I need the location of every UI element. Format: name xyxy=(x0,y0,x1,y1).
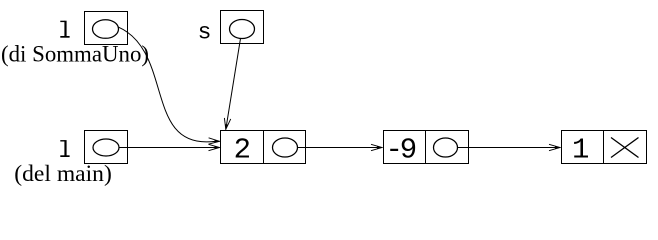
node 2 box xyxy=(221,131,306,164)
wire: arrow from node -9 pointer to node 1 xyxy=(458,147,561,149)
wire: arrow from l (del main) blob to node 2 xyxy=(120,147,220,149)
pointer blob in box l (di SommaUno) xyxy=(93,20,119,39)
pointer blob in box l (del main) xyxy=(93,139,119,156)
svg-text:(di SommaUno): (di SommaUno) xyxy=(1,42,149,67)
pointer variable box s xyxy=(221,11,264,44)
node 1 null cross xyxy=(611,138,639,158)
svg-text:9: 9 xyxy=(400,134,417,167)
node -9 box xyxy=(384,131,469,164)
node 1 box xyxy=(562,131,647,164)
pointer variable box l (di SommaUno) xyxy=(85,12,128,45)
label l (del main) xyxy=(60,140,69,157)
wire: arrow from s blob down to node 2 xyxy=(226,39,241,130)
svg-text:s: s xyxy=(198,20,212,46)
node 2 divider xyxy=(263,131,265,164)
node -9 divider xyxy=(425,131,427,164)
svg-text:2: 2 xyxy=(234,134,251,167)
node 1 divider xyxy=(603,131,605,164)
svg-text:1: 1 xyxy=(572,134,589,167)
node 2 pointer blob xyxy=(273,138,298,157)
svg-text:(del main): (del main) xyxy=(14,161,112,186)
pointer variable box l (del main) xyxy=(85,131,128,164)
wire: arrow from node 2 pointer to node -9 xyxy=(298,147,383,149)
pointer blob in box s xyxy=(230,20,255,39)
wire: curved arrow from l (di SommaUno) blob to node 2 xyxy=(118,27,220,142)
node -9 pointer blob xyxy=(434,138,458,157)
label l (di SommaUno) xyxy=(60,21,69,38)
